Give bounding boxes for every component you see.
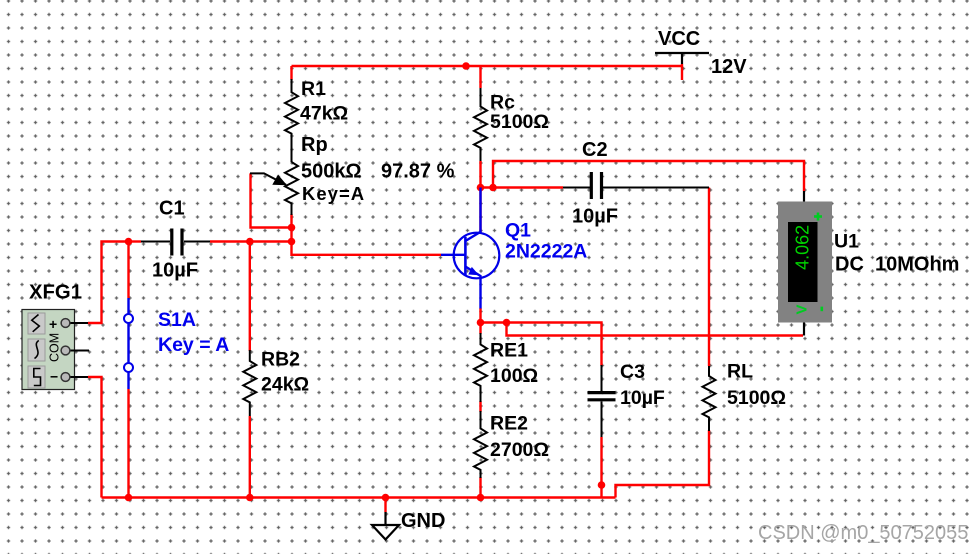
junction collector node C (477, 184, 485, 192)
svg-text:4.062: 4.062 (793, 225, 813, 270)
svg-text:DC 10MOhm: DC 10MOhm (835, 254, 959, 276)
wire RE2 bottom (479, 477, 481, 498)
label VCC (658, 28, 700, 50)
wire GND stub (384, 498, 386, 513)
svg-text:COM: COM (48, 333, 62, 362)
wire RL bottom to ground rail (616, 430, 710, 498)
wire C1 right to base node (210, 240, 292, 242)
wire Rc bottom to collector node (479, 161, 481, 232)
value DC 10MOhm (835, 254, 959, 276)
svg-text:12V: 12V (711, 56, 747, 78)
junction C3 bottom (598, 481, 606, 489)
svg-text:Rp: Rp (301, 134, 328, 156)
svg-text:C3: C3 (620, 361, 645, 383)
wire emitter node to voltmeter minus (507, 323, 804, 336)
wire RE1 top (479, 323, 481, 335)
value 12V (711, 56, 747, 78)
junction Rp wiper node (288, 224, 296, 232)
wire XFG1 minus to rail (88, 377, 102, 498)
label RE2 (490, 413, 528, 435)
value 10uF (C2) (572, 206, 618, 228)
resistor Rc 5100 (474, 88, 487, 161)
svg-text:5100Ω: 5100Ω (727, 387, 786, 409)
voltmeter U1 (778, 191, 832, 336)
junction base node B (288, 238, 296, 246)
value 10uF (C3) (620, 387, 665, 409)
watermark CSDN (758, 522, 968, 544)
label XFG1 (29, 282, 82, 304)
wire C3 bottom (600, 437, 602, 498)
resistor RB2 24k (243, 350, 256, 416)
value Key=A (302, 183, 365, 204)
label R1 (301, 78, 326, 100)
label C2 (582, 139, 608, 161)
wire collector node to C2 (479, 186, 563, 188)
svg-text:2700Ω: 2700Ω (490, 439, 549, 461)
label C3 (620, 361, 645, 383)
switch S1A (124, 298, 133, 389)
value 47kOhm (300, 103, 348, 125)
wire RE1 to RE2 (479, 401, 481, 412)
wire RB2 bottom (249, 416, 251, 498)
potentiometer Rp 500k body (285, 162, 298, 215)
value 2N2222A (505, 241, 587, 263)
svg-text:Key=A: Key=A (302, 183, 365, 204)
svg-text:R1: R1 (301, 78, 326, 100)
junction ground rail at switch (125, 494, 133, 502)
svg-text:5100Ω: 5100Ω (490, 111, 549, 133)
svg-text:V: V (794, 304, 811, 314)
svg-text:2N2222A: 2N2222A (505, 241, 587, 263)
value 500kOhm (301, 161, 362, 183)
svg-text:100Ω: 100Ω (490, 365, 538, 387)
value 5100Ohm (RL) (727, 387, 786, 409)
svg-text:S1A: S1A (158, 309, 196, 331)
svg-text:GND: GND (401, 510, 445, 532)
wire XFG1 plus to C1 (88, 242, 129, 324)
label RB2 (261, 349, 300, 371)
label C1 (159, 198, 185, 220)
label GND (401, 510, 445, 532)
label U1 (834, 231, 859, 253)
wire Q1 emitter node (481, 308, 602, 366)
resistor RE1 100 (474, 333, 487, 402)
transistor Q1 2N2222A (441, 188, 499, 309)
function generator XFG1 (22, 310, 89, 390)
label Rc (490, 92, 515, 114)
wire Rc top (479, 66, 481, 88)
capacitor C2 10uF (563, 172, 709, 199)
wire RB2 top (249, 242, 251, 352)
wire R1 top (290, 66, 292, 80)
svg-text:U1: U1 (834, 231, 859, 253)
wire C1 left (129, 240, 142, 242)
svg-text:RL: RL (727, 361, 753, 383)
wire VCC stub (681, 64, 683, 80)
value 10uF (C1) (152, 260, 198, 282)
value 2700Ohm (490, 439, 549, 461)
svg-text:10µF: 10µF (152, 260, 198, 282)
potentiometer Rp wiper arrow (250, 173, 287, 185)
svg-text:500kΩ: 500kΩ (301, 161, 362, 183)
capacitor C3 10uF (588, 365, 616, 437)
svg-text:Q1: Q1 (505, 220, 531, 242)
resistor RL 5100 (703, 366, 716, 431)
wire C2 to RL top (708, 188, 710, 367)
svg-text:CSDN @m0_50752055: CSDN @m0_50752055 (758, 522, 968, 544)
power VCC symbol (655, 53, 709, 64)
label Q1 (505, 220, 531, 242)
svg-text:10µF: 10µF (620, 387, 665, 409)
junction emitter to meter branch (503, 319, 511, 327)
svg-text:−: − (50, 369, 58, 385)
value Key = A (S1A) (158, 334, 229, 356)
label RL (727, 361, 753, 383)
wire switch bottom (127, 389, 129, 498)
ground GND symbol (372, 512, 399, 540)
junction RB2 top node (246, 238, 254, 246)
resistor R1 47k (285, 79, 298, 162)
svg-text:RE1: RE1 (490, 340, 528, 362)
wire base node to Q1 base (292, 242, 442, 255)
value 5100Ohm (Rc) (490, 111, 549, 133)
value 24kOhm (261, 374, 309, 396)
svg-text:24kΩ: 24kΩ (261, 374, 309, 396)
junction ground rail at RE2 (477, 494, 485, 502)
svg-text:VCC: VCC (658, 28, 700, 50)
capacitor C1 10uF (141, 229, 210, 256)
label Rp (301, 134, 328, 156)
junction C1 input / switch node (125, 238, 133, 246)
svg-text:C2: C2 (582, 139, 608, 161)
junction ground rail at GND (382, 494, 390, 502)
junction emitter node E (477, 319, 485, 327)
svg-text:C1: C1 (159, 198, 185, 220)
wire Rp wiper (251, 173, 292, 227)
svg-text:XFG1: XFG1 (29, 282, 82, 304)
wire switch top (127, 242, 129, 299)
wire ground bottom rail (102, 496, 616, 498)
svg-text:97.87 %: 97.87 % (381, 161, 455, 183)
wire collector node to voltmeter plus (493, 161, 804, 191)
value 97.87 % (381, 161, 455, 183)
resistor RE2 2700 (474, 411, 487, 478)
junction collector to meter branch (489, 184, 497, 192)
label S1A (158, 309, 196, 331)
svg-text:RB2: RB2 (261, 349, 300, 371)
wire Rp bottom (290, 214, 292, 242)
svg-text:Key = A: Key = A (158, 334, 229, 356)
svg-text:+: + (49, 316, 57, 332)
junction VCC rail (462, 62, 470, 70)
junction ground rail at RB2 (246, 494, 254, 502)
wire VCC top rail (292, 65, 683, 67)
svg-text:10µF: 10µF (572, 206, 618, 228)
value 100Ohm (490, 365, 538, 387)
label RE1 (490, 340, 528, 362)
svg-text:RE2: RE2 (490, 413, 528, 435)
svg-text:47kΩ: 47kΩ (300, 103, 348, 125)
